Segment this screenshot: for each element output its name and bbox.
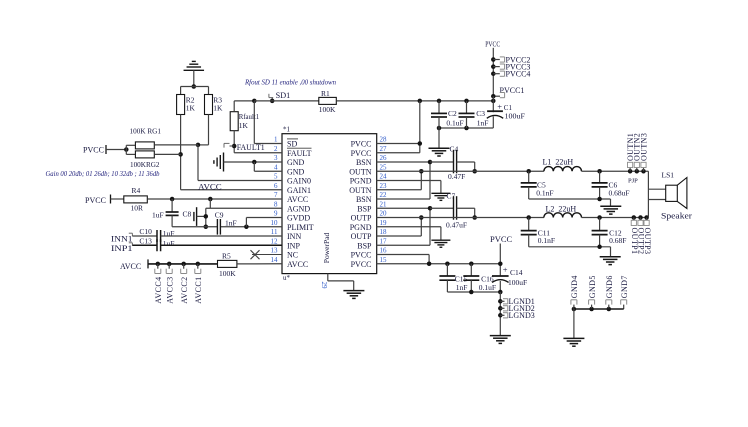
svg-text:BSN: BSN	[356, 195, 372, 204]
wire GND4-7 rail	[574, 309, 624, 338]
svg-text:1K: 1K	[213, 104, 223, 113]
port INN1	[111, 233, 157, 243]
ground PGND pin 24	[377, 181, 451, 201]
pin 26 BSN (right)	[356, 154, 387, 167]
resistor Rfault1 1K	[230, 101, 259, 153]
pin 3 GND (left)	[274, 154, 305, 167]
svg-text:22: 22	[380, 191, 388, 199]
svg-text:NC: NC	[287, 251, 298, 260]
wire PVCC pins 16/15 tie and rail	[377, 255, 501, 267]
svg-text:1: 1	[274, 136, 278, 144]
node: R2/R3 top rail	[181, 84, 209, 94]
svg-text:0.47F: 0.47F	[448, 172, 465, 181]
svg-text:28: 28	[380, 136, 388, 144]
svg-text:26: 26	[380, 154, 388, 162]
pin 19 PGND (right)	[350, 219, 387, 232]
svg-text:11: 11	[271, 228, 278, 236]
power PVCC bottom label	[490, 234, 513, 276]
svg-text:7: 7	[274, 191, 278, 199]
svg-text:12: 12	[271, 237, 279, 245]
op-amp U1: TPA3116 class-D amplifier IC body	[282, 126, 377, 283]
ground below C2	[429, 128, 450, 156]
svg-text:29: 29	[320, 282, 328, 290]
ground PGND pin 19	[377, 227, 451, 248]
pin 13 NC (left)	[271, 247, 299, 260]
svg-text:OUTN3: OUTN3	[639, 133, 648, 161]
svg-text:AVCC2: AVCC2	[180, 277, 189, 304]
wire OUTN to speaker top	[648, 171, 665, 217]
port AVCC1	[194, 262, 203, 304]
svg-text:100KRG2: 100KRG2	[130, 160, 160, 169]
capacitor C7 0.47uF bootstrap P	[430, 191, 477, 229]
svg-text:+: +	[503, 264, 508, 274]
svg-text:AVCC3: AVCC3	[165, 277, 174, 304]
pin 11 INN (left)	[271, 228, 302, 241]
svg-text:1uF: 1uF	[163, 229, 175, 238]
resistor RG2 100K	[126, 151, 180, 169]
wire GND3-GND4 jumper	[252, 160, 282, 172]
node SD1 junction	[252, 99, 282, 144]
svg-text:0.68F: 0.68F	[609, 236, 626, 245]
ground filter P	[600, 257, 621, 265]
svg-text:BSP: BSP	[357, 241, 372, 250]
capacitor C2 0.1uF	[431, 101, 464, 128]
svg-text:3: 3	[274, 154, 278, 162]
wire PVCC pins 28/27 to rail	[377, 101, 422, 153]
wire C11/C12 ground join P	[529, 245, 611, 257]
svg-text:INN: INN	[287, 232, 301, 241]
svg-text:FAULT1: FAULT1	[237, 143, 265, 152]
svg-text:PVCC: PVCC	[351, 251, 372, 260]
svg-text:INP1: INP1	[111, 244, 133, 253]
wire bottom cap rail	[447, 290, 502, 295]
capacitor C3 1nF	[459, 101, 489, 128]
svg-text:10R: 10R	[131, 204, 144, 213]
pin 6 GAIN1 (left)	[274, 182, 311, 195]
svg-text:BSP: BSP	[357, 204, 372, 213]
svg-text:PVCC1: PVCC1	[500, 86, 525, 95]
svg-text:20: 20	[380, 210, 388, 218]
wire OUTP tie (pins 20-18)	[377, 215, 424, 236]
svg-text:C1: C1	[504, 104, 513, 112]
svg-text:0.68uF: 0.68uF	[609, 189, 630, 198]
svg-text:AVCC: AVCC	[198, 182, 222, 191]
svg-text:1nF: 1nF	[225, 218, 237, 227]
pin 24 PGND (right)	[350, 173, 387, 186]
svg-text:PVCC: PVCC	[485, 40, 500, 49]
capacitor C13 1uF	[139, 236, 282, 251]
svg-text:1uF: 1uF	[152, 211, 164, 220]
svg-text:27: 27	[380, 145, 388, 153]
svg-text:GVDD: GVDD	[287, 214, 310, 223]
wire OUTN tie (pins 25-23)	[377, 169, 424, 190]
capacitor 1uF (AVCC bypass)	[152, 199, 179, 227]
svg-text:R4: R4	[132, 186, 141, 195]
svg-text:AVCC4: AVCC4	[154, 277, 163, 304]
resistor R2 1K	[177, 95, 196, 115]
svg-text:Speaker: Speaker	[661, 210, 692, 220]
svg-text:GND5: GND5	[588, 275, 597, 298]
svg-text:C2: C2	[448, 109, 457, 118]
wire OUTN pin25 to L1	[377, 170, 544, 172]
wire AGND pin8 to PLIMIT line	[204, 199, 282, 229]
capacitor C8	[183, 207, 206, 226]
resistor R3 1K	[205, 95, 224, 115]
port PVCC (gain divider)	[83, 145, 129, 154]
svg-text:INP: INP	[287, 241, 300, 250]
resistor R5 100K	[218, 251, 283, 278]
svg-text:LS1: LS1	[662, 171, 675, 180]
svg-text:SD: SD	[287, 140, 297, 149]
pin 21 BSP (right)	[357, 200, 387, 213]
power rail symbol (inverted ground) above R2/R3	[184, 61, 205, 86]
svg-text:*1: *1	[283, 126, 291, 134]
svg-text:21: 21	[380, 200, 388, 208]
capacitor C14 100uF polarized	[492, 264, 527, 292]
pin 14 AVCC (left)	[271, 256, 309, 269]
pin 25 OUTN (right)	[349, 163, 387, 176]
svg-text:Rfault1: Rfault1	[239, 112, 260, 121]
svg-text:SD1: SD1	[276, 91, 291, 100]
svg-text:0.1nF: 0.1nF	[536, 189, 553, 198]
port SD1	[269, 91, 290, 103]
svg-text:INN1: INN1	[111, 234, 133, 243]
pin 1 SD (left)	[274, 136, 298, 149]
port AVCC4	[154, 262, 163, 304]
ground below LGND	[490, 336, 511, 344]
annotation Rfout SD enable	[244, 80, 337, 87]
pin 5 GAIN0 (left)	[274, 173, 311, 186]
pin 10 PLIMIT (left)	[271, 219, 314, 232]
svg-text:13: 13	[271, 247, 279, 255]
svg-text:u*: u*	[283, 274, 291, 282]
svg-text:LGND3: LGND3	[509, 311, 535, 320]
port AVCC2	[180, 262, 189, 304]
resistor R4 10R	[124, 186, 148, 213]
port FAULT1	[224, 143, 282, 153]
svg-text:PVCC: PVCC	[83, 145, 104, 154]
inductor L1 22uH	[543, 157, 649, 171]
svg-text:100uF: 100uF	[508, 278, 527, 287]
svg-text:5: 5	[274, 173, 278, 181]
svg-text:1K: 1K	[239, 121, 249, 130]
svg-text:10: 10	[271, 219, 279, 227]
svg-text:AGND: AGND	[287, 204, 310, 213]
wire GVDD pin9 jog to PLIMIT	[246, 218, 282, 227]
power PVCC top label	[485, 40, 500, 97]
wire SD1 to R1	[254, 100, 318, 102]
port OUTN2	[633, 133, 642, 174]
svg-text:100K RG1: 100K RG1	[130, 127, 162, 136]
wire BSN tie (pins 26-22)	[377, 160, 433, 199]
capacitor C15 1nF	[439, 264, 467, 292]
port OUTP1	[630, 215, 639, 254]
svg-text:1uF: 1uF	[163, 239, 175, 248]
svg-text:R5: R5	[222, 251, 231, 260]
svg-text:19: 19	[380, 219, 388, 227]
svg-text:0.1uF: 0.1uF	[479, 283, 496, 292]
resistor RG1 100K	[126, 127, 198, 149]
svg-text:PowerPad: PowerPad	[322, 233, 331, 264]
capacitor C12 0.68F	[592, 215, 627, 247]
port LGND1	[498, 297, 535, 306]
svg-text:PVCC4: PVCC4	[506, 70, 531, 79]
wire LGND drop	[499, 292, 501, 336]
svg-text:GND: GND	[287, 167, 305, 176]
svg-text:24: 24	[380, 173, 388, 181]
svg-text:15: 15	[380, 256, 388, 264]
svg-text:OUTN: OUTN	[349, 167, 371, 176]
label PJP	[628, 177, 638, 184]
pin 4 GND (left)	[274, 163, 305, 176]
capacitor C6 0.68uF	[592, 169, 630, 199]
pin 27 PVCC (right)	[351, 145, 387, 158]
svg-text:BSN: BSN	[356, 158, 372, 167]
svg-text:0.47uF: 0.47uF	[446, 221, 467, 230]
port PVCC4	[491, 70, 530, 79]
svg-text:8: 8	[274, 200, 278, 208]
svg-text:14: 14	[271, 256, 279, 264]
port GND5	[588, 275, 597, 311]
svg-text:Rfout SD 11 enable ,00 shutdow: Rfout SD 11 enable ,00 shutdown	[244, 80, 337, 87]
svg-text:1nF: 1nF	[477, 119, 489, 128]
pin 15 PVCC (right)	[351, 256, 387, 269]
svg-text:PVCC: PVCC	[351, 149, 372, 158]
port OUTP3	[643, 215, 652, 254]
port PVCC (AVCC filter)	[85, 195, 124, 205]
svg-text:PVCC: PVCC	[85, 196, 106, 205]
svg-text:FAULT: FAULT	[287, 149, 312, 158]
net label AVCC on GAIN1 wire	[198, 182, 222, 191]
ground for PowerPad	[343, 291, 364, 299]
pin 18 OUTP (right)	[351, 228, 387, 241]
svg-text:AVCC: AVCC	[287, 195, 308, 204]
svg-text:0.1nF: 0.1nF	[538, 236, 555, 245]
svg-text:GND7: GND7	[620, 275, 629, 298]
port INP1	[111, 243, 157, 253]
svg-text:PGND: PGND	[350, 177, 372, 186]
speaker LS1	[661, 171, 692, 221]
svg-text:AVCC: AVCC	[287, 260, 308, 269]
port GND4	[570, 275, 579, 311]
capacitor C1 100uF polarized	[437, 101, 525, 130]
svg-text:OUTP: OUTP	[351, 232, 372, 241]
capacitor C5 0.1nF	[521, 169, 554, 199]
svg-text:PGND: PGND	[350, 223, 372, 232]
port OUTP2	[637, 215, 646, 254]
pin 8 AGND (left)	[274, 200, 310, 213]
pin 29 PowerPad wire	[320, 274, 354, 291]
svg-text:PLIMIT: PLIMIT	[287, 223, 314, 232]
svg-text:C8: C8	[183, 209, 192, 218]
pin 28 PVCC (right)	[351, 136, 387, 149]
wire R2 bottom to GAIN1	[178, 115, 282, 190]
svg-text:GND: GND	[287, 158, 305, 167]
ground below GND4-7	[563, 338, 584, 346]
svg-text:2: 2	[274, 145, 278, 153]
port PVCC1	[491, 86, 524, 99]
ground (sideways) at GND pins	[214, 153, 282, 172]
port PVCC2	[491, 55, 530, 64]
port OUTN3	[639, 133, 648, 174]
svg-text:1K: 1K	[186, 104, 196, 113]
svg-text:100uF: 100uF	[505, 113, 526, 121]
port AVCC3	[165, 262, 174, 304]
svg-text:PJP: PJP	[628, 177, 638, 184]
pin 2 FAULT (left)	[274, 145, 312, 158]
gain table annotation	[46, 171, 161, 178]
pin 20 OUTP (right)	[351, 210, 387, 223]
svg-text:GAIN1: GAIN1	[287, 186, 311, 195]
wire R1 to PVCC rail	[336, 99, 493, 104]
capacitor C4 0.47uF bootstrap N	[430, 144, 477, 181]
wire R3 bottom to GAIN0	[196, 115, 282, 181]
svg-text:100K: 100K	[219, 269, 236, 278]
pin 16 PVCC (right)	[351, 247, 387, 260]
port LGND3	[498, 311, 535, 320]
inductor L2 22uH	[544, 204, 649, 217]
port GND6	[605, 275, 614, 311]
svg-text:PVCC: PVCC	[351, 260, 372, 269]
pin 7 AVCC (left)	[274, 191, 308, 204]
svg-text:PVCC: PVCC	[490, 234, 513, 244]
svg-text:L1 22uH: L1 22uH	[543, 157, 574, 166]
svg-text:GND6: GND6	[605, 275, 614, 298]
svg-text:C9: C9	[215, 210, 224, 219]
svg-text:0.1uF: 0.1uF	[446, 119, 463, 128]
pin 23 OUTN (right)	[349, 182, 387, 195]
port OUTN1	[626, 133, 635, 174]
svg-text:GND4: GND4	[570, 275, 579, 298]
pin 9 GVDD (left)	[274, 210, 310, 223]
svg-text:L2 22uH: L2 22uH	[546, 204, 577, 213]
capacitor C9 1nF	[215, 210, 237, 234]
node PVCC rail end	[491, 96, 496, 112]
pin 22 BSN (right)	[356, 191, 387, 204]
svg-text:100K: 100K	[319, 105, 336, 114]
svg-text:Gain 00 20db; 01 26db; 10 32db: Gain 00 20db; 01 26db; 10 32db ; 11 36db	[46, 171, 161, 178]
svg-text:R1: R1	[321, 89, 330, 98]
wire BSP tie (pins 21-17)	[377, 206, 433, 245]
svg-text:4: 4	[274, 163, 278, 171]
no-connect X at pin 13	[251, 250, 283, 259]
wire PLIMIT line (pin 10)	[172, 225, 282, 230]
svg-text:6: 6	[274, 182, 278, 190]
svg-text:25: 25	[380, 163, 388, 171]
svg-text:9: 9	[274, 210, 278, 218]
svg-text:C10: C10	[139, 227, 152, 236]
pin 17 BSP (right)	[357, 237, 387, 250]
svg-text:OUTN: OUTN	[349, 186, 371, 195]
wire speaker bottom to OUTP	[648, 199, 665, 201]
svg-text:C14: C14	[510, 268, 523, 277]
svg-text:+: +	[497, 101, 502, 111]
capacitor C11 0.1nF	[521, 215, 555, 247]
pin 12 INP (left)	[271, 237, 301, 250]
port LGND2	[498, 304, 535, 313]
svg-text:23: 23	[380, 182, 388, 190]
port PVCC3	[491, 62, 530, 71]
svg-text:OUTP3: OUTP3	[643, 228, 652, 255]
svg-text:GAIN0: GAIN0	[287, 177, 311, 186]
svg-text:C3: C3	[476, 109, 485, 118]
port GND7	[620, 275, 629, 309]
capacitor C10 1uF	[139, 227, 282, 242]
svg-text:17: 17	[380, 237, 388, 245]
svg-text:1nF: 1nF	[456, 283, 468, 292]
svg-text:C13: C13	[139, 236, 152, 245]
svg-text:OUTP: OUTP	[351, 214, 372, 223]
wire OUTP pin20 to L2	[377, 217, 544, 219]
svg-text:AVCC: AVCC	[120, 262, 141, 271]
wire R4 to AVCC pin 7	[147, 197, 282, 202]
wire C5/C6 ground join N	[529, 197, 611, 207]
svg-text:PVCC: PVCC	[351, 140, 372, 149]
svg-text:18: 18	[380, 228, 388, 236]
svg-text:AVCC1: AVCC1	[194, 277, 203, 304]
resistor R1 100K	[319, 89, 337, 114]
svg-text:16: 16	[380, 247, 388, 255]
capacitor C16 0.1uF	[463, 264, 496, 292]
ground filter N	[600, 206, 621, 214]
port AVCC	[120, 259, 218, 271]
